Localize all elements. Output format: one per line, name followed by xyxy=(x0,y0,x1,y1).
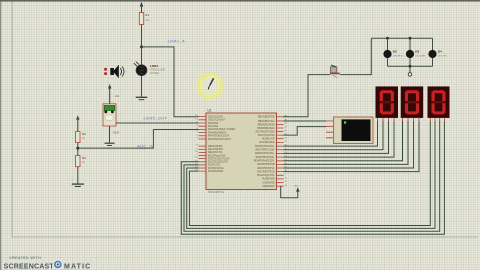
svg-text:RD3/PSP3/C2IN-: RD3/PSP3/C2IN- xyxy=(256,156,275,159)
svg-text:ADC_IN: ADC_IN xyxy=(136,143,154,148)
wire to ground terminal xyxy=(409,66,411,72)
svg-text:RC4/SDI/SDA: RC4/SDI/SDA xyxy=(208,170,224,173)
7-segment display DISP2 xyxy=(401,86,424,118)
svg-text:RC7/RX/DT/SDO: RC7/RX/DT/SDO xyxy=(256,130,275,133)
node junction divider xyxy=(76,147,79,150)
svg-text:9: 9 xyxy=(196,148,198,150)
svg-text:6: 6 xyxy=(196,134,198,136)
resistor R3 xyxy=(76,156,87,167)
svg-text:11: 11 xyxy=(285,178,288,180)
DISP1 pin stubs xyxy=(378,118,395,121)
svg-text:VSS/AVSS: VSS/AVSS xyxy=(263,181,275,184)
LDR LDR1 xyxy=(134,62,165,76)
svg-text:RC5/D+/VP: RC5/D+/VP xyxy=(262,138,275,141)
7seg display wires RD0-RD3 to DISP1 xyxy=(284,121,395,157)
svg-text:10: 10 xyxy=(195,151,198,153)
7seg display wires RD4-RD7 to DISP2 xyxy=(284,121,420,172)
svg-text:RD0/PSP0/C1IN+: RD0/PSP0/C1IN+ xyxy=(255,145,275,148)
svg-text:LED-GRN: LED-GRN xyxy=(415,55,425,57)
svg-text:38: 38 xyxy=(285,123,288,125)
svg-text:RC6/TX/CK/SS: RC6/TX/CK/SS xyxy=(258,134,275,137)
LED D2 xyxy=(383,50,402,59)
wire sensor to chip RA2 xyxy=(116,122,199,124)
resistor R2 xyxy=(76,132,87,143)
sensor U2 (interactive, green actuator) xyxy=(103,104,116,126)
svg-text:RD2/PSP2/C2IN+: RD2/PSP2/C2IN+ xyxy=(255,152,275,155)
frame top edge xyxy=(0,0,480,2)
svg-text:10k: 10k xyxy=(145,19,150,22)
svg-text:12: 12 xyxy=(285,181,288,183)
svg-text:3: 3 xyxy=(196,125,198,127)
ground (below R3) xyxy=(72,184,84,186)
DISP2 pin stubs xyxy=(403,118,420,121)
svg-text:R3: R3 xyxy=(82,156,86,160)
wire R2 to R3 xyxy=(77,143,79,156)
LED D4 xyxy=(428,50,447,59)
resistor R1 xyxy=(139,13,150,25)
svg-text:D2: D2 xyxy=(393,50,397,54)
wire R3 to ground xyxy=(77,167,79,184)
svg-text:LED-RED: LED-RED xyxy=(393,55,403,57)
wire divider to chip RA4 xyxy=(78,130,199,149)
U1 right pin names xyxy=(254,116,275,188)
svg-text:31: 31 xyxy=(285,185,288,187)
svg-text:23: 23 xyxy=(285,141,288,143)
svg-text:VDD: VDD xyxy=(294,185,299,187)
LED bottom rail wire xyxy=(388,65,433,67)
svg-text:R2: R2 xyxy=(82,132,86,136)
ground terminal (LEDs) xyxy=(408,73,412,77)
svg-text:CREATED WITH: CREATED WITH xyxy=(9,256,41,260)
svg-text:SCREENCAST: SCREENCAST xyxy=(4,264,55,270)
wire rail drop D2 xyxy=(387,38,389,50)
svg-text:26: 26 xyxy=(285,130,288,132)
LED D3 xyxy=(406,50,426,59)
wire D4 to bottom rail xyxy=(432,58,434,66)
wire junction to LDR xyxy=(141,47,143,65)
speaker icon xyxy=(110,65,124,79)
DISP3 pin stubs xyxy=(430,118,444,121)
pencil cursor xyxy=(208,77,215,90)
wire switch to LED rail xyxy=(340,38,371,74)
watermark logo circle xyxy=(53,259,63,269)
svg-text:LM35_OUT: LM35_OUT xyxy=(144,116,168,121)
node junction LED D3 xyxy=(409,37,412,40)
wire RB6 to terminal RXD xyxy=(284,120,327,122)
svg-text:R1: R1 xyxy=(145,13,149,17)
svg-text:U1: U1 xyxy=(208,108,212,112)
virtual terminal VT1 xyxy=(326,117,373,144)
wire VSS to power arrow xyxy=(281,186,298,198)
wire junction to RA0 elbow xyxy=(142,47,199,117)
node junction LED D2 xyxy=(386,37,389,40)
svg-text:VDD/AVDD: VDD/AVDD xyxy=(262,185,275,188)
svg-text:1k: 1k xyxy=(82,161,85,164)
svg-text:D4: D4 xyxy=(438,50,442,54)
svg-text:LM35: LM35 xyxy=(113,132,120,135)
svg-text:RD5/PSP5/P1B: RD5/PSP5/P1B xyxy=(257,163,274,166)
svg-text:ACTIVE: ACTIVE xyxy=(150,72,159,75)
svg-text:MCLR/Vpp/THV: MCLR/Vpp/THV xyxy=(257,174,275,177)
U1 left pin names xyxy=(208,115,236,172)
wire LDR to ground xyxy=(141,76,143,97)
power terminal arrow (divider) xyxy=(76,115,79,131)
wire rail drop D3 xyxy=(409,38,411,50)
wire rail drop D4 xyxy=(432,38,434,50)
wire D3 to bottom rail xyxy=(409,58,411,66)
sheet border vertical xyxy=(11,1,13,237)
power terminal arrow (top, +5V to R1) xyxy=(140,2,144,13)
svg-text:7: 7 xyxy=(196,138,198,140)
svg-text:RA5/AN4/SS/C2OUT: RA5/AN4/SS/C2OUT xyxy=(208,138,232,141)
svg-text:8: 8 xyxy=(196,145,198,147)
buzzer red indicator dots xyxy=(104,68,107,75)
svg-text:RD4/PSP4/ECCP1: RD4/PSP4/ECCP1 xyxy=(254,160,275,163)
node junction bottom rail xyxy=(409,65,412,68)
wire R1 to junction xyxy=(141,25,143,47)
U1 right pin stubs xyxy=(277,117,284,186)
switch SW1 on wire xyxy=(330,65,340,78)
svg-text:RD1/PSP1/C1IN-: RD1/PSP1/C1IN- xyxy=(256,149,275,152)
svg-text:24: 24 xyxy=(285,137,288,139)
power terminal arrow (bottom right) xyxy=(294,185,300,191)
U1 left pin stubs xyxy=(199,117,207,172)
node junction LDR top xyxy=(140,45,143,48)
ground (below LDR) xyxy=(136,97,148,99)
svg-text:RC4/SDI/SDA: RC4/SDI/SDA xyxy=(259,141,275,144)
svg-text:RD7/PSP7/P1D: RD7/PSP7/P1D xyxy=(257,170,274,173)
frame left edge xyxy=(0,0,1,270)
watermark: screencast-o-matic xyxy=(4,264,92,270)
svg-text:14: 14 xyxy=(195,118,198,120)
svg-text:LS1: LS1 xyxy=(115,95,120,98)
7-segment display DISP1 xyxy=(376,86,399,118)
svg-text:LED-YEL: LED-YEL xyxy=(438,55,448,57)
svg-text:D3: D3 xyxy=(415,50,419,54)
wire D2 to bottom rail xyxy=(387,58,389,66)
DISP3 wires around bottom to RB0-RB3 xyxy=(181,121,444,234)
svg-text:LDR1_A: LDR1_A xyxy=(168,39,186,44)
microcontroller U1 xyxy=(206,108,277,189)
svg-text:PIC16F877A: PIC16F877A xyxy=(208,190,224,194)
svg-text:RD6/PSP6/P1C: RD6/PSP6/P1C xyxy=(257,167,274,170)
svg-text:RB7/KBI3/PGD: RB7/KBI3/PGD xyxy=(258,116,275,119)
U1 right pin numbers xyxy=(285,115,288,186)
sheet border horizontal xyxy=(12,236,478,238)
U1 left pin numbers xyxy=(195,115,198,172)
LED top rail wire xyxy=(371,37,432,39)
ground (below sensor) xyxy=(105,143,115,145)
svg-text:VUSB/VDD: VUSB/VDD xyxy=(262,178,275,181)
arrow terminal (speaker wire) xyxy=(108,84,111,104)
svg-text:LDR1: LDR1 xyxy=(150,64,158,68)
svg-text:15: 15 xyxy=(195,157,198,159)
svg-text:5: 5 xyxy=(196,131,198,133)
cursor highlight halo xyxy=(196,72,224,100)
svg-text:1: 1 xyxy=(196,154,198,156)
wire sensor to ground xyxy=(109,126,111,143)
wire RB7 to switch (pin40) xyxy=(284,75,331,117)
svg-text:1: 1 xyxy=(285,174,287,176)
svg-text:37: 37 xyxy=(285,127,288,129)
svg-text:MATIC: MATIC xyxy=(64,264,91,270)
wire RC6/TX to terminal xyxy=(284,127,327,136)
7-segment display DISP3 xyxy=(428,86,450,118)
svg-text:1k: 1k xyxy=(82,137,85,140)
